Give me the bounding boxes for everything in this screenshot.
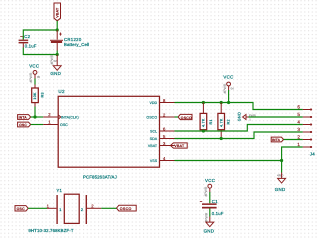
svg-text:GND: GND	[204, 228, 215, 233]
global label VBAT (at U2 pin 3)	[171, 143, 188, 148]
power flag hidden ref #PWR02 (gray)	[50, 54, 57, 64]
svg-text:4ND: 4ND	[277, 174, 284, 178]
svg-text:SDA: SDA	[150, 137, 158, 141]
ground flag GND (at J4 pin 5, rotated)	[238, 112, 257, 122]
svg-text:GND: GND	[275, 187, 286, 192]
hidden ref #PWR05 (gray)	[29, 72, 40, 82]
svg-text:0.1uF: 0.1uF	[25, 44, 37, 49]
capacitor C2	[19, 34, 37, 49]
svg-text:VCC: VCC	[223, 75, 233, 80]
svg-text:VBAT: VBAT	[148, 144, 158, 148]
resistor R3 10K	[32, 85, 45, 107]
U2 pin 3 VBAT right	[148, 141, 175, 148]
capacitor C1	[200, 199, 224, 216]
junction R2 bottom on SDA	[220, 137, 223, 140]
svg-text:GND: GND	[238, 112, 242, 121]
wire VCC to C1	[209, 192, 211, 203]
svg-text:10K: 10K	[33, 92, 37, 100]
Y1 value 9HT10-32.768KBZF-T	[28, 228, 73, 233]
wire VSS to GND and J4 pin 1	[175, 147, 303, 173]
battery BT CR1220	[50, 30, 89, 51]
junction battery bottom node	[56, 53, 59, 56]
connector J4	[297, 104, 315, 156]
svg-text:02: 02	[54, 59, 58, 63]
hidden ref #PWR04 (gray)	[223, 83, 234, 93]
svg-text:VDD: VDD	[149, 101, 157, 105]
svg-text:Battery_Cell: Battery_Cell	[64, 42, 89, 47]
svg-text:VCC: VCC	[205, 178, 215, 183]
svg-text:R2: R2	[227, 119, 231, 124]
power symbol VCC (at C1)	[205, 178, 215, 192]
svg-text:4: 4	[297, 119, 300, 124]
junction R1 top	[202, 101, 205, 104]
wire SDA to J4 pin 3	[175, 132, 303, 139]
U2 pin 8 VDD right	[149, 98, 174, 105]
ground GND below battery	[50, 55, 61, 77]
svg-text:OSC: OSC	[17, 207, 25, 211]
svg-text:#PWR: #PWR	[29, 72, 33, 82]
hidden ref #PWR07 (gray)	[277, 174, 284, 178]
wire U2 OSCO pin to label	[175, 116, 179, 118]
svg-text:2: 2	[81, 208, 83, 212]
power symbol VCC (left)	[29, 64, 39, 79]
svg-text:#PWR: #PWR	[223, 83, 227, 93]
crystal Y1	[47, 188, 102, 224]
ground GND (bottom right)	[275, 173, 286, 192]
svg-text:1: 1	[297, 142, 300, 147]
svg-text:INTA(CLK): INTA(CLK)	[61, 115, 79, 119]
junction INTA node	[33, 115, 36, 118]
svg-text:9HT10-32.768KBZF-T: 9HT10-32.768KBZF-T	[28, 228, 73, 233]
svg-text:0.1uF: 0.1uF	[212, 211, 224, 216]
svg-text:#PWR: #PWR	[204, 212, 208, 222]
resistor R1 4.7K	[200, 103, 213, 132]
power symbol VCC (right)	[223, 75, 233, 90]
svg-text:VBAT: VBAT	[56, 7, 60, 18]
svg-text:PCF85263AT/AJ: PCF85263AT/AJ	[83, 174, 117, 179]
wire VBAT label to battery top	[56, 21, 58, 30]
svg-text:GND: GND	[50, 71, 61, 76]
svg-text:INTA: INTA	[19, 116, 28, 120]
svg-text:J4: J4	[310, 152, 315, 157]
svg-text:OSC: OSC	[60, 123, 68, 127]
svg-text:2: 2	[297, 134, 300, 139]
U2 pin 2 INTA(CLK) left	[43, 112, 79, 119]
svg-text:3: 3	[297, 127, 300, 132]
IC U2 body	[58, 89, 159, 167]
global label VBAT (vertical, top)	[54, 3, 61, 21]
U2 pin 5 SDA right	[150, 134, 175, 141]
hidden ref #PWR06 (gray)	[204, 212, 208, 222]
svg-text:04: 04	[231, 87, 235, 91]
junction VCC stem	[227, 101, 230, 104]
svg-text:#PWR: #PWR	[204, 186, 208, 196]
svg-text:OSCO: OSCO	[120, 207, 132, 211]
svg-text:OSCO: OSCO	[146, 116, 157, 120]
svg-text:OSCO: OSCO	[181, 116, 192, 120]
svg-text:U2: U2	[58, 89, 65, 94]
ground GND (below C1)	[204, 217, 215, 234]
global label OSC (left)	[18, 122, 31, 127]
svg-text:C1: C1	[212, 199, 218, 204]
wire C1 to GND	[209, 209, 211, 217]
junction VSS node	[280, 159, 283, 162]
svg-text:OSC: OSC	[19, 123, 27, 127]
wire INTA label to U2 pin2	[31, 116, 44, 118]
resistor R2 4.7K	[218, 103, 231, 139]
wire battery bottom to GND node	[56, 51, 58, 56]
svg-text:C2: C2	[24, 34, 30, 39]
junction R2 top	[220, 101, 223, 104]
svg-text:SCL: SCL	[150, 130, 157, 134]
U2 pin 6 SCL right	[150, 126, 174, 133]
U2 pin 4 VSS right	[150, 156, 175, 163]
svg-text:R1: R1	[209, 119, 213, 124]
svg-text:05: 05	[37, 75, 41, 79]
svg-text:INTA: INTA	[272, 138, 281, 142]
wire OSC label to U2 pin1	[31, 124, 44, 126]
svg-text:VSS: VSS	[150, 159, 158, 163]
junction R1 bottom on SCL	[202, 129, 205, 132]
wire C2 top to battery node	[23, 30, 57, 40]
U2 pin 2 OSCO right	[146, 112, 174, 119]
svg-text:6: 6	[297, 104, 300, 109]
svg-text:4.7K: 4.7K	[219, 118, 223, 127]
svg-text:4.7K: 4.7K	[202, 118, 206, 127]
wire R3 to INTA node	[34, 107, 36, 118]
global label OSCO (at Y1 pin 2)	[116, 205, 136, 211]
svg-text:VBAT: VBAT	[174, 144, 185, 148]
global label OSCO (at U2)	[178, 114, 192, 120]
svg-text:1: 1	[59, 208, 61, 212]
global label INTA (left)	[18, 115, 31, 120]
wire VCC to R3	[34, 79, 36, 85]
U2 value PCF85263AT/AJ	[83, 174, 117, 179]
wire C2 bottom rail	[23, 48, 57, 55]
svg-text:VCC: VCC	[29, 64, 39, 69]
hidden ref #PWR03 (gray)	[204, 186, 208, 196]
junction battery top node	[56, 28, 59, 31]
wire Y1 pin 2 to OSCO label	[101, 207, 116, 209]
wire VDD rail to J4 pin 6	[175, 103, 303, 110]
wire INTA label to J4 pin 2	[284, 139, 303, 141]
wire VCC to VDD rail	[228, 90, 230, 103]
global label INTA (at J4 pin 2)	[271, 137, 283, 142]
global label OSC (at Y1 pin 1)	[15, 206, 28, 211]
wire OSC label to Y1 pin 1	[28, 207, 47, 209]
wire GND flag to J4 pin 5	[249, 116, 303, 118]
svg-text:R3: R3	[41, 92, 45, 97]
wire SCL to J4 pin 4	[175, 125, 303, 132]
svg-text:Y1: Y1	[56, 188, 62, 193]
U2 pin 1 OSC left	[43, 120, 68, 127]
svg-text:5: 5	[297, 112, 300, 117]
